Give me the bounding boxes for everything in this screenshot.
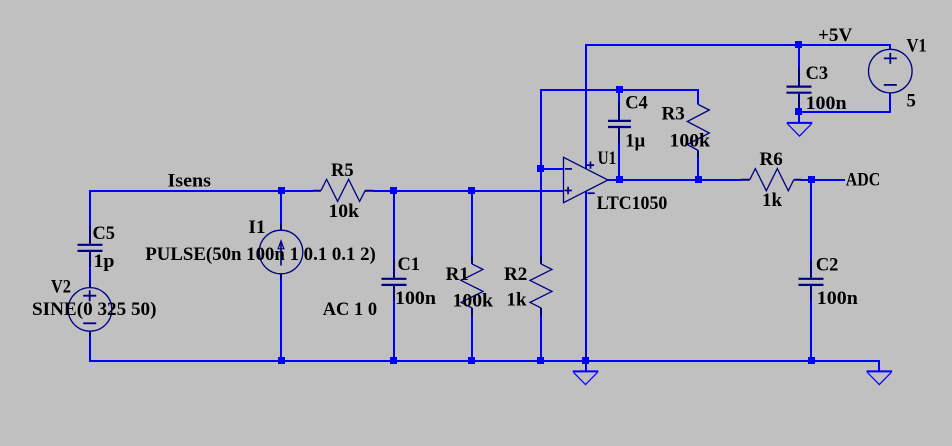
svg-text:SINE(0 325 50): SINE(0 325 50) [32, 299, 157, 320]
capacitor C3 [787, 68, 812, 110]
resistor R5 [313, 190, 373, 192]
wire C3 bottom lead [798, 109, 800, 113]
current source I1 [259, 224, 303, 280]
resistor R3 [697, 151, 699, 158]
svg-text:100k: 100k [670, 130, 711, 151]
svg-text:R6: R6 [760, 149, 783, 170]
node junction R3 bottom [695, 176, 702, 183]
wire V1 top lead [889, 44, 891, 50]
wire C5 to V2 circle [89, 267, 91, 283]
svg-text:10k: 10k [329, 201, 360, 222]
node junction bus R2 [537, 357, 544, 364]
node junction bus op-amp [582, 357, 589, 364]
wire feedback vertical R2 branch [540, 89, 542, 256]
wire output to ADC [801, 179, 845, 181]
svg-text:AC 1 0: AC 1 0 [323, 299, 377, 320]
svg-text:100n: 100n [817, 288, 858, 309]
node junction C3 bottom [795, 108, 802, 115]
node junction -input tap [537, 165, 544, 172]
ground below op-amp [573, 371, 599, 384]
wire V2 bottom to ground bus [89, 336, 91, 362]
svg-text:PULSE(50n 100n 1 0.1 0.1 2): PULSE(50n 100n 1 0.1 0.1 2) [145, 244, 375, 265]
ground below C3 [787, 123, 813, 136]
wire C1 branch upper [393, 191, 395, 259]
wire -input horizontal [541, 168, 564, 170]
svg-text:100n: 100n [395, 288, 436, 309]
op-amp U1 LTC1050 [564, 157, 609, 202]
wire R3 lower lead [697, 158, 699, 181]
wire feedback rail horizontal [540, 89, 698, 91]
node junction C3 top [795, 41, 802, 48]
wire C3 top lead [798, 44, 800, 68]
wire R1 branch upper [471, 191, 473, 256]
wire I1 top lead [280, 191, 282, 224]
voltage source V1 [869, 49, 913, 93]
node junction R5-C1 [390, 187, 397, 194]
node junction I1 top [278, 187, 285, 194]
resistor R2 [540, 256, 542, 316]
svg-text:I1: I1 [248, 217, 265, 238]
node junction bus C1 [390, 357, 397, 364]
capacitor C5 [78, 226, 103, 337]
node junction ADC node [808, 176, 815, 183]
wire C3 ground stub [798, 115, 800, 123]
svg-text:1k: 1k [762, 190, 782, 211]
wire C1 branch lower [393, 301, 395, 361]
wire left vertical V2 branch upper [89, 190, 91, 226]
svg-text:+5V: +5V [818, 25, 853, 46]
node junction R1 top [468, 187, 475, 194]
svg-text:1p: 1p [94, 251, 115, 272]
wire op-amp V- vertical to bus [585, 191, 587, 361]
svg-text:5: 5 [907, 90, 916, 111]
wire V1 bottom lead [889, 93, 891, 112]
wire R1 branch lower [471, 316, 473, 361]
svg-text:1µ: 1µ [625, 130, 645, 151]
svg-text:V2: V2 [51, 276, 71, 297]
svg-text:C5: C5 [93, 223, 116, 244]
svg-text:R2: R2 [504, 264, 527, 285]
svg-text:C3: C3 [806, 63, 829, 84]
wire right ground drop [878, 361, 880, 371]
svg-text:1k: 1k [507, 289, 527, 310]
svg-text:C4: C4 [625, 92, 648, 113]
svg-text:C1: C1 [398, 254, 421, 275]
wire C4 lower lead [618, 143, 620, 180]
resistor R1 [471, 256, 473, 316]
voltage source V2 [68, 288, 112, 332]
wire ground bus bottom [89, 360, 880, 362]
svg-text:R5: R5 [331, 160, 354, 181]
capacitor C1 [382, 259, 407, 302]
wire signal right of R5 to op-amp +input [373, 190, 564, 192]
svg-text:Isens: Isens [168, 170, 212, 191]
wire V1 minus to C3 node [799, 111, 891, 113]
capacitor C2 [799, 260, 824, 301]
wire op-amp V+ vertical [585, 44, 587, 169]
wire op-amp output [608, 179, 741, 181]
wire R3 upper lead [697, 89, 699, 105]
resistor R6 [741, 179, 801, 181]
svg-text:U1: U1 [598, 148, 617, 169]
svg-text:100k: 100k [453, 290, 494, 311]
svg-text:C2: C2 [816, 255, 839, 276]
svg-text:R1: R1 [446, 264, 469, 285]
node junction op-amp output [616, 176, 623, 183]
svg-text:V1: V1 [907, 35, 927, 56]
svg-text:ADC: ADC [846, 170, 880, 191]
wire C2 lower lead [810, 301, 812, 361]
node junction bus C2 [808, 357, 815, 364]
svg-text:LTC1050: LTC1050 [597, 193, 668, 214]
wire op-amp ground stub [585, 361, 587, 371]
node junction bus R1 [468, 357, 475, 364]
capacitor C4 [608, 102, 631, 143]
node junction C4 top rail [616, 86, 623, 93]
wire signal top-left horizontal Isens net [89, 190, 313, 192]
svg-text:100n: 100n [806, 93, 847, 114]
wire I1 bottom lead [280, 279, 282, 361]
node junction bus I1 [278, 357, 285, 364]
wire C2 upper lead [810, 180, 812, 260]
wire R2 bottom lead [540, 316, 542, 361]
svg-text:R3: R3 [662, 103, 685, 124]
ground bottom right [867, 371, 893, 384]
wire C4 upper lead [618, 90, 620, 102]
wire +5V rail [585, 44, 890, 46]
